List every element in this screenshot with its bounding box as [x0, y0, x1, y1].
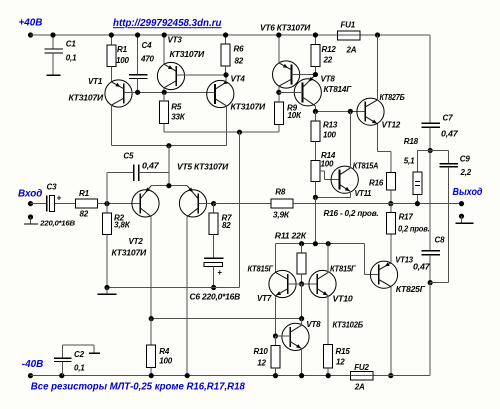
label R17 value	[398, 224, 430, 233]
svg-text:КТ815Г: КТ815Г	[330, 265, 357, 274]
wire input to C3	[31, 203, 47, 205]
label VT2 type	[112, 248, 147, 257]
junction bottom rail VT9 emitter	[299, 373, 304, 378]
svg-text:+: +	[217, 268, 222, 277]
svg-text:R1: R1	[79, 189, 90, 198]
fuse FU2	[350, 372, 373, 381]
junction bottom rail R4	[149, 373, 154, 378]
label C3 value	[39, 218, 75, 227]
wire VT11 collector up	[349, 111, 351, 168]
junction zobel node	[428, 148, 433, 153]
label R8 value	[273, 211, 290, 220]
svg-text:КТ3102Б: КТ3102Б	[333, 320, 364, 329]
wire VT12 emitter to R16	[378, 124, 391, 172]
svg-text:C8: C8	[435, 236, 446, 245]
capacitor C1	[44, 35, 62, 75]
capacitor C3	[47, 196, 76, 212]
svg-text:Выход: Выход	[453, 187, 483, 198]
wire R7 node to R8	[214, 203, 272, 205]
junction diff pair tail	[166, 143, 171, 148]
svg-text:C5: C5	[123, 152, 134, 161]
label R13 value	[323, 131, 336, 140]
wire VT8 collector	[314, 106, 316, 112]
label C9	[460, 155, 471, 164]
node input ground terminal	[28, 214, 33, 219]
label VT1	[88, 77, 103, 86]
svg-text:R5: R5	[171, 103, 182, 112]
label C4	[142, 41, 153, 50]
wire zobel node to R18	[417, 151, 430, 173]
wire VT3 emitter to rail	[163, 35, 165, 64]
junction VT9 base	[273, 333, 278, 338]
svg-text:R11 22К: R11 22К	[275, 232, 307, 241]
junction bottom rail R15	[326, 373, 331, 378]
label R13	[323, 121, 338, 130]
label VT3	[168, 36, 183, 45]
label R8	[275, 187, 286, 196]
label R4	[159, 347, 170, 356]
node R12 VT6 base VT8 emitter	[313, 72, 318, 77]
svg-text:C1: C1	[66, 39, 77, 48]
wire R1 to VT2 base	[98, 203, 141, 205]
wire VT9 base	[276, 335, 291, 337]
label C5	[123, 152, 134, 161]
svg-text:12: 12	[257, 359, 266, 368]
svg-text:220,0*16В: 220,0*16В	[39, 218, 75, 227]
wire VT10 collector up	[327, 244, 329, 273]
label C1 value	[66, 53, 77, 62]
junction R5R9 line drop	[237, 130, 242, 135]
svg-text:100: 100	[159, 356, 172, 365]
wire bias line VT7 VT10	[276, 243, 365, 245]
label R4 value	[159, 356, 172, 365]
svg-text:КТ3107И: КТ3107И	[170, 50, 205, 59]
junction VT11 collector	[348, 109, 353, 114]
svg-text:VT12: VT12	[382, 120, 401, 129]
junction VT8 collector R13	[313, 109, 318, 114]
junction VT5 base R7 R8	[211, 201, 216, 206]
label C1	[66, 39, 77, 48]
wire R14 tap to VT11 base	[320, 171, 340, 180]
wire bias line left drop	[275, 244, 277, 273]
wire top +40V rail	[31, 34, 378, 36]
label R17	[399, 213, 414, 222]
svg-text:R13: R13	[323, 121, 338, 130]
label +40V	[19, 18, 43, 29]
transistor VT2	[132, 186, 159, 217]
ground mid	[98, 288, 117, 295]
label C6 plus	[217, 268, 222, 277]
svg-text:КТ3107И: КТ3107И	[69, 94, 104, 103]
label C5 value	[142, 161, 159, 170]
wire R11 node down	[301, 284, 303, 319]
transistor VT8	[294, 75, 321, 106]
wire VT6 collector	[278, 86, 280, 92]
label -40V	[22, 359, 43, 370]
resistor R4	[147, 319, 156, 376]
capacitor C9	[439, 164, 458, 283]
node output terminal	[459, 201, 464, 206]
svg-text:3,8К: 3,8К	[114, 221, 131, 230]
label VT13 type	[396, 285, 426, 294]
resistor R2	[103, 204, 112, 288]
wire VT4 collector drop	[225, 106, 227, 146]
capacitor C5	[134, 165, 169, 181]
node VT6 collector R9 VT8 base	[276, 90, 281, 95]
label VT8	[321, 75, 336, 84]
resistor R11	[297, 244, 306, 284]
svg-text:VT13: VT13	[395, 256, 413, 265]
wire VT13 collector to rail	[390, 287, 392, 376]
capacitor C7	[421, 123, 440, 150]
junction bottom rail C2	[59, 373, 64, 378]
label R9	[287, 104, 298, 113]
resistor R9	[275, 92, 284, 132]
junction R2 ground	[104, 285, 109, 290]
wire VT5 base to R7 node	[198, 203, 213, 205]
junction pair emitters	[166, 183, 171, 188]
wire R5 to R9 line	[164, 131, 279, 133]
svg-text:0,2 пров.: 0,2 пров.	[398, 224, 430, 233]
transistor VT12	[357, 98, 384, 125]
label C8 value	[413, 262, 430, 271]
resistor R10	[271, 336, 280, 376]
label VT13	[395, 256, 413, 265]
label FU2 value	[354, 382, 365, 391]
svg-text:0,47: 0,47	[441, 129, 458, 138]
svg-text:22: 22	[323, 56, 333, 65]
svg-text:R8: R8	[275, 187, 286, 196]
label C2	[74, 350, 85, 359]
svg-text:VT4: VT4	[231, 75, 246, 84]
label VT10 type	[330, 265, 357, 274]
label R1 input	[79, 189, 90, 198]
label VT5	[177, 162, 228, 171]
label VT11	[355, 189, 372, 198]
resistor R8	[271, 199, 293, 208]
label VT12 type	[380, 93, 405, 102]
label C3	[47, 182, 58, 191]
label R10	[254, 347, 269, 356]
svg-text:100: 100	[321, 160, 334, 169]
wire VT6 emitter to rail	[278, 35, 280, 63]
label R6	[234, 45, 245, 54]
label R12 value	[323, 56, 333, 65]
junction R4 top	[149, 316, 154, 321]
wire VT3 base to R6 node	[176, 74, 226, 76]
label R15	[336, 347, 351, 356]
svg-text:0,47: 0,47	[413, 262, 430, 271]
svg-text:470: 470	[140, 54, 154, 63]
junction output rail R16 R17	[388, 201, 393, 206]
label VT11 type	[353, 161, 379, 170]
label VT10	[333, 294, 354, 303]
svg-text:0,1: 0,1	[74, 364, 85, 373]
junction R11 top	[299, 241, 304, 246]
label R1 input value	[80, 210, 89, 219]
label C2 value	[74, 364, 85, 373]
wire VT2 collector drop	[150, 217, 152, 319]
label R14 value	[321, 160, 334, 169]
junction R4 line VT9 collector	[299, 316, 304, 321]
resistor R18	[413, 172, 422, 204]
label R11	[275, 232, 307, 241]
junction bottom rail VT13	[388, 373, 393, 378]
junction VT7 VT10 base R11	[299, 281, 304, 286]
label R10 value	[257, 359, 266, 368]
label C7	[443, 114, 454, 123]
label VT8 type	[324, 85, 353, 94]
label VT1 type	[69, 94, 104, 103]
wire VT7 emitter down	[275, 296, 277, 336]
label R12	[322, 45, 337, 54]
wire C8 bottom link	[430, 282, 448, 284]
wire VT12 collector to rail	[377, 35, 379, 100]
label R16 note	[324, 209, 379, 218]
junction top rail R6	[223, 32, 228, 37]
label VT9 type	[333, 320, 364, 329]
svg-text:Все резисторы МЛТ-0,25 кроме R: Все резисторы МЛТ-0,25 кроме R16,R17,R18	[31, 381, 246, 392]
transistor VT9 (VT8 КТ3102Б)	[282, 323, 309, 350]
label output	[453, 187, 483, 198]
capacitor C2	[54, 345, 72, 375]
resistor R5	[160, 92, 169, 132]
svg-text:VT7: VT7	[257, 294, 272, 303]
label R16	[369, 179, 384, 188]
svg-text:КТ815Г: КТ815Г	[248, 264, 275, 273]
wire VT8 collector to VT12 base	[315, 110, 365, 112]
svg-text:VT10: VT10	[333, 294, 354, 303]
label C9 value	[460, 168, 472, 177]
node VT3 base R6 VT4 emitter	[223, 72, 228, 77]
label FU2	[354, 363, 369, 372]
svg-text:C7: C7	[443, 114, 454, 123]
label R9 value	[288, 111, 302, 120]
label site url	[113, 18, 222, 29]
svg-text:R15: R15	[336, 347, 351, 356]
svg-text:33К: 33К	[171, 112, 185, 121]
wire VT11 emitter	[315, 191, 350, 197]
resistor R15	[324, 345, 333, 376]
label R6 value	[235, 57, 244, 66]
svg-text:VT2: VT2	[129, 237, 144, 246]
transistor VT11	[331, 166, 358, 193]
label R7	[222, 214, 233, 223]
wire zobel node down to C8	[429, 151, 431, 251]
svg-text:-40В: -40В	[22, 359, 43, 370]
resistor R7	[209, 204, 218, 258]
svg-text:R6: R6	[234, 45, 245, 54]
wire VT9 collector	[301, 319, 303, 326]
label R5	[171, 103, 182, 112]
label C4 value	[140, 54, 154, 63]
label VT9	[306, 320, 321, 329]
svg-text:C9: C9	[460, 155, 471, 164]
label VT7 type	[248, 264, 275, 273]
svg-text:12: 12	[336, 357, 345, 366]
wire C8 bottom to -40 rail	[429, 283, 431, 376]
svg-text:C2: C2	[74, 350, 85, 359]
label VT12	[382, 120, 401, 129]
svg-text:R4: R4	[159, 347, 170, 356]
junction top rail VT3	[162, 32, 167, 37]
svg-text:КТ3107И: КТ3107И	[231, 103, 266, 112]
label VT4 type	[231, 103, 266, 112]
svg-text:R12: R12	[322, 45, 337, 54]
node -40V supply terminal	[28, 373, 33, 378]
junction top rail R12	[313, 32, 318, 37]
svg-text:КТ827Б: КТ827Б	[380, 93, 405, 102]
node output ground terminal	[459, 214, 464, 219]
label VT3 type	[170, 50, 205, 59]
svg-text:VT6 КТ3107И: VT6 КТ3107И	[260, 24, 310, 33]
transistor VT7	[269, 270, 296, 297]
resistor R17	[386, 204, 395, 234]
label R15 value	[336, 357, 345, 366]
label VT4	[231, 75, 246, 84]
svg-text:VT3: VT3	[168, 36, 183, 45]
label C6 value	[190, 293, 241, 302]
svg-text:100: 100	[116, 56, 129, 65]
wire top rail to C7 branch	[378, 34, 431, 36]
svg-text:FU1: FU1	[341, 21, 356, 30]
svg-text:VT5 КТ3107И: VT5 КТ3107И	[177, 162, 228, 171]
svg-text:R17: R17	[399, 213, 414, 222]
wire emitter node down to bias line	[314, 197, 316, 243]
svg-text:VT1: VT1	[88, 77, 103, 86]
transistor VT6	[273, 61, 300, 88]
wire pair emitter link	[151, 185, 187, 187]
capacitor C6	[204, 258, 224, 287]
wire ground line	[107, 287, 240, 289]
junction top rail VT6	[276, 32, 281, 37]
svg-text:82: 82	[222, 221, 231, 230]
label note	[31, 381, 246, 392]
label FU1 value	[346, 46, 357, 55]
wire VT4 emitter	[225, 75, 227, 82]
wire bias line right drop VT13 base	[365, 244, 379, 275]
label R14	[321, 151, 336, 160]
svg-text:R10: R10	[254, 347, 269, 356]
svg-text:+: +	[57, 194, 62, 203]
node input terminal	[28, 201, 33, 206]
label R18	[404, 137, 419, 146]
svg-text:82: 82	[235, 57, 244, 66]
wire VT10 emitter to R15	[327, 296, 329, 345]
svg-text:+40В: +40В	[19, 18, 43, 29]
wire C7 branch down	[429, 35, 431, 123]
label VT6	[260, 24, 310, 33]
label R1	[117, 45, 128, 54]
ground output	[455, 216, 473, 223]
junction bottom rail VT5 collector	[185, 373, 190, 378]
label R2 value	[114, 221, 131, 230]
svg-text:82: 82	[80, 210, 89, 219]
svg-text:2А: 2А	[346, 46, 357, 55]
svg-text:КТ815А: КТ815А	[353, 161, 379, 170]
label R1 value	[116, 56, 129, 65]
resistor R16	[386, 172, 395, 203]
svg-text:VT8: VT8	[321, 75, 336, 84]
capacitor C4	[129, 35, 148, 92]
svg-text:VT11: VT11	[355, 189, 372, 198]
resistor R13	[311, 111, 320, 160]
svg-text:КТ814Г: КТ814Г	[324, 85, 353, 94]
fuse FU1	[338, 31, 361, 40]
svg-text:http://299792458.3dn.ru: http://299792458.3dn.ru	[113, 18, 222, 29]
label R18 value	[404, 156, 415, 165]
svg-text:FU2: FU2	[354, 363, 369, 372]
svg-text:R16 - 0,2 пров.: R16 - 0,2 пров.	[324, 209, 379, 218]
wire VT2 collector to R4 line	[151, 318, 301, 320]
transistor VT1	[105, 80, 132, 107]
node +40V supply terminal	[28, 32, 33, 37]
resistor R1 input (82)	[76, 199, 98, 208]
junction C8 bottom	[428, 280, 433, 285]
wire bias drop long vertical	[239, 132, 241, 287]
resistor R1 (100)	[107, 35, 116, 82]
wire input node up to C5	[107, 172, 134, 203]
junction VT3 collector R5	[162, 90, 167, 95]
wire VT3 collector to base line	[163, 88, 165, 93]
capacitor C8	[421, 251, 440, 283]
transistor VT10	[309, 270, 336, 297]
svg-text:2А: 2А	[354, 382, 365, 391]
junction VT10 collector bias	[326, 241, 331, 246]
svg-text:10К: 10К	[288, 111, 302, 120]
svg-text:R16: R16	[369, 179, 384, 188]
wire zobel node to C9	[430, 151, 448, 164]
transistor VT3	[157, 62, 184, 89]
label C7 value	[441, 129, 458, 138]
wire VT1-VT4 collector line	[111, 145, 226, 147]
wire VT9 emitter	[301, 349, 303, 376]
wire VT1 base line	[124, 91, 215, 93]
label VT2	[129, 237, 144, 246]
svg-text:3,9К: 3,9К	[273, 211, 290, 220]
wire tail drop to pair emitters	[168, 146, 170, 186]
svg-text:C3: C3	[47, 182, 58, 191]
junction top rail C1	[50, 32, 55, 37]
wire VT1 collector drop	[110, 105, 112, 146]
svg-text:C4: C4	[142, 41, 153, 50]
wire bottom -40V rail	[31, 375, 431, 377]
svg-text:C6 220,0*16В: C6 220,0*16В	[190, 293, 241, 302]
svg-text:VT8: VT8	[306, 320, 321, 329]
wire VT5 collector drop	[186, 217, 188, 376]
junction emitter chain bias	[313, 241, 318, 246]
label input	[18, 189, 42, 200]
junction top rail R1	[109, 32, 114, 37]
wire output rail	[293, 203, 461, 205]
resistor R6	[221, 35, 230, 75]
label FU1	[341, 21, 356, 30]
svg-text:R18: R18	[404, 137, 419, 146]
label R2	[114, 214, 125, 223]
label C3 plus	[57, 194, 62, 203]
junction input node	[104, 201, 109, 206]
svg-text:2,2: 2,2	[460, 168, 472, 177]
label R5 value	[171, 112, 185, 121]
svg-text:5,1: 5,1	[404, 156, 415, 165]
wire VT8 base	[279, 91, 303, 93]
svg-text:КТ825Г: КТ825Г	[396, 285, 426, 294]
svg-text:100: 100	[323, 131, 336, 140]
ground input	[24, 217, 38, 224]
wire C2 open terminal	[63, 345, 101, 353]
junction top rail C4	[135, 32, 140, 37]
svg-text:R1: R1	[117, 45, 128, 54]
